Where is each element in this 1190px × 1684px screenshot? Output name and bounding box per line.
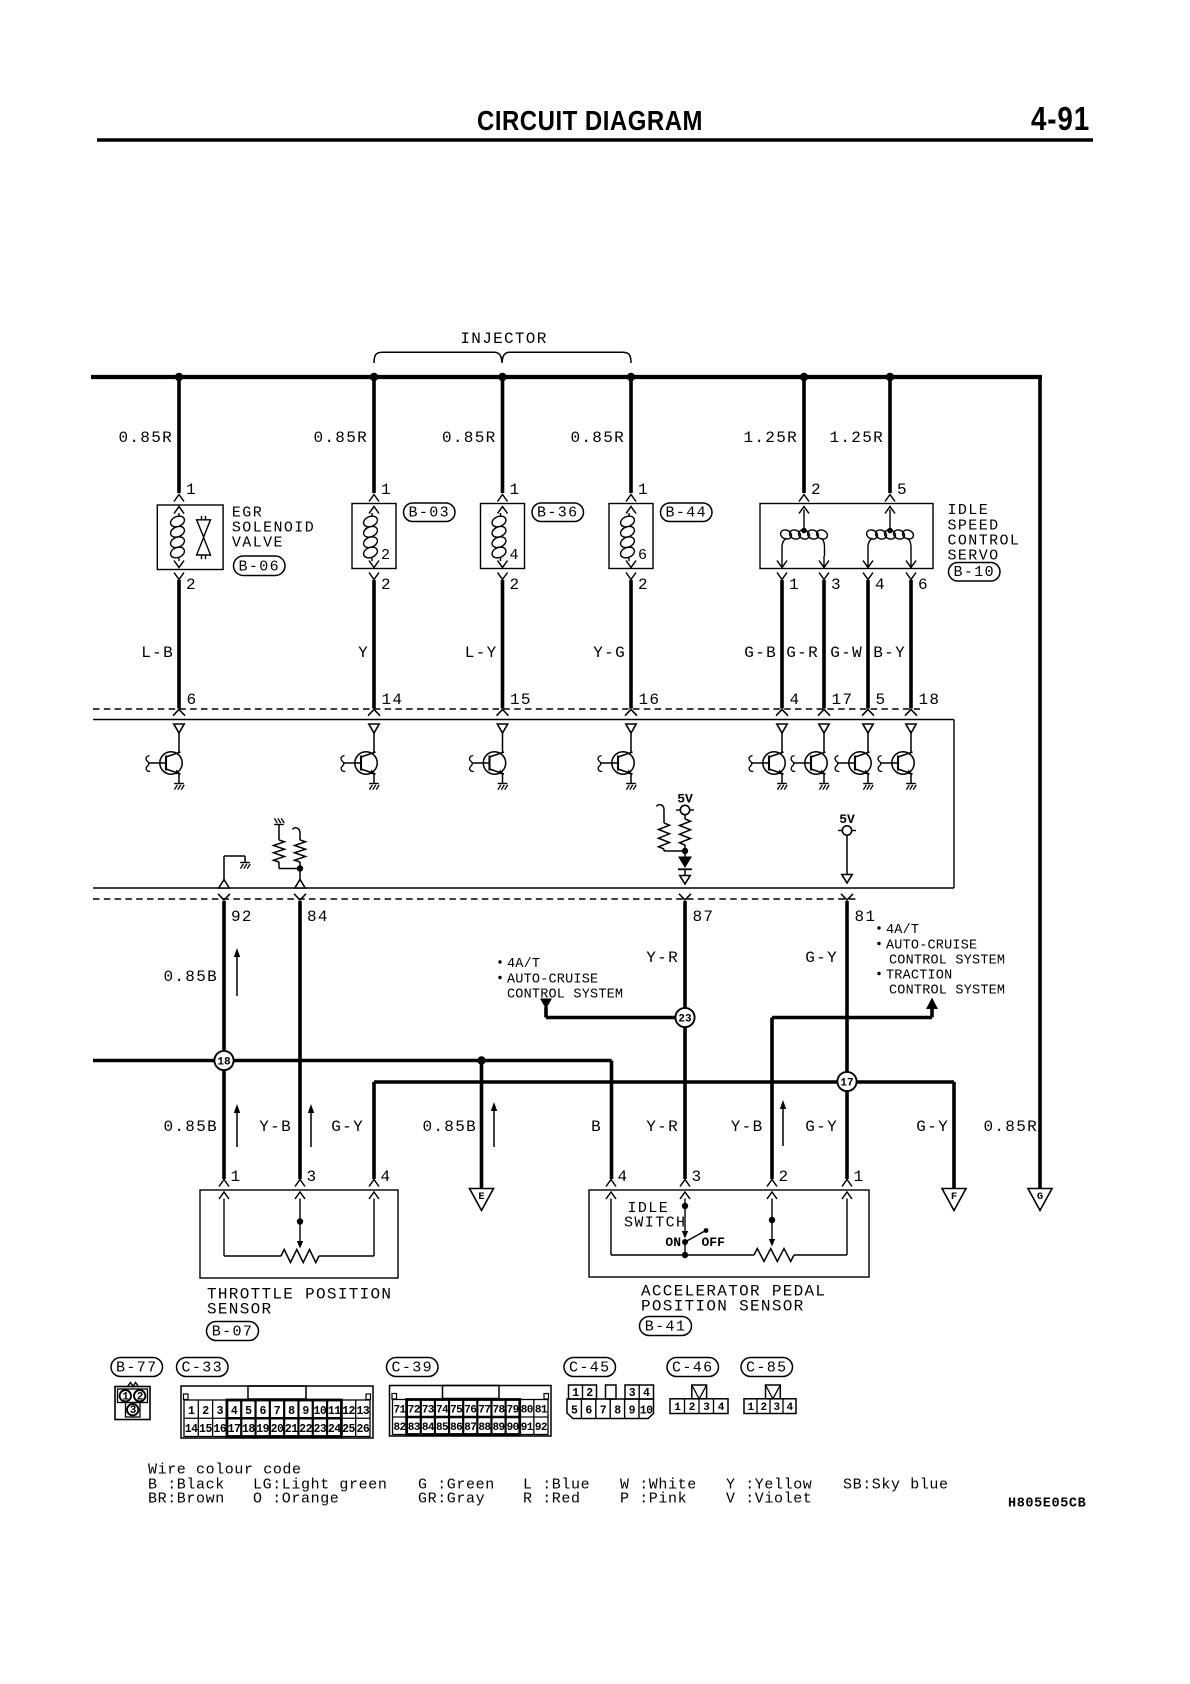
ECU pin 15: [497, 691, 532, 716]
pin 1 label above box at x=179: [186, 481, 197, 499]
svg-text:B-44: B-44: [665, 505, 707, 522]
svg-text:B-77: B-77: [116, 1360, 158, 1377]
svg-text:17: 17: [832, 691, 854, 709]
ECU internal: resistor R4 (left branch): [657, 805, 686, 851]
APS pin 4: [606, 1168, 628, 1199]
svg-text:C-45: C-45: [569, 1360, 611, 1377]
connector C-33 pin view: [181, 1386, 373, 1438]
svg-text:1: 1: [789, 576, 800, 594]
junction on bus x=804: [800, 373, 808, 381]
ECU internal: 5V supply node (81): [838, 812, 856, 874]
joint 23: [675, 1008, 694, 1027]
wire Y to ECU: [358, 580, 374, 709]
svg-text:15: 15: [510, 691, 532, 709]
svg-text:F: F: [951, 1191, 957, 1203]
connector ref B-07: [207, 1322, 259, 1341]
wire Y-B from pin 84: [298, 901, 302, 1179]
svg-text:AUTO-CRUISE: AUTO-CRUISE: [507, 973, 598, 988]
svg-text:18: 18: [217, 1057, 231, 1069]
svg-text:2: 2: [760, 1402, 766, 1414]
svg-text:0.85B: 0.85B: [163, 968, 218, 986]
drawing code: [1008, 1497, 1086, 1512]
svg-text:1: 1: [854, 1168, 865, 1186]
ISC leg pin 6: [906, 556, 929, 594]
svg-text:GR:Gray: GR:Gray: [418, 1491, 485, 1508]
svg-text:6: 6: [259, 1405, 266, 1418]
svg-text:2: 2: [510, 576, 521, 594]
svg-text:B-06: B-06: [238, 559, 280, 576]
bottom chevrons / pin 2 at x=631: [626, 561, 649, 595]
wire: bus right drop to G: [1038, 377, 1042, 1189]
svg-text:75: 75: [450, 1405, 463, 1417]
svg-text:4: 4: [790, 691, 801, 709]
svg-text:2: 2: [202, 1405, 209, 1418]
svg-text:26: 26: [356, 1423, 369, 1436]
wire G-W to ECU: [830, 580, 868, 709]
transistor Q5: [749, 724, 787, 790]
TPS pin 3: [295, 1168, 317, 1199]
svg-text:4: 4: [786, 1402, 793, 1414]
wire Y-R from pin 87: [683, 901, 687, 1179]
connector ref C-45: [564, 1358, 616, 1377]
svg-text:4: 4: [875, 576, 886, 594]
connector C-46 pin view: [670, 1385, 728, 1414]
svg-text:B-41: B-41: [645, 1319, 687, 1336]
svg-text:1: 1: [638, 481, 649, 499]
svg-text:12: 12: [342, 1405, 355, 1418]
svg-text:2: 2: [381, 547, 391, 564]
connector C-39 pin view: [390, 1386, 552, 1437]
pin 1 label above box at x=631: [638, 481, 649, 499]
svg-text:G-Y: G-Y: [331, 1118, 364, 1136]
svg-text:1: 1: [572, 1387, 579, 1400]
connector ref B-77: [111, 1358, 163, 1377]
connector B-77 pin view: [115, 1383, 150, 1420]
connector ref B-06: [234, 556, 286, 576]
svg-text:73: 73: [422, 1405, 435, 1417]
transistor Q1: [146, 724, 184, 790]
svg-text:CIRCUIT DIAGRAM: CIRCUIT DIAGRAM: [477, 105, 703, 136]
ECU internal: junction dot: [682, 848, 688, 854]
joint 18: [214, 1051, 233, 1070]
svg-text:G-Y: G-Y: [916, 1118, 949, 1136]
svg-text:CONTROL SYSTEM: CONTROL SYSTEM: [889, 984, 1005, 999]
svg-text:3: 3: [629, 1387, 636, 1400]
injector B-44 internal pin 6: [638, 547, 648, 564]
wire L-B to ECU: [141, 580, 179, 709]
svg-text:ON: ON: [665, 1235, 681, 1250]
pin 1 label above box at x=374: [381, 481, 392, 499]
svg-text:14: 14: [185, 1423, 198, 1436]
svg-text:1: 1: [674, 1402, 681, 1414]
connector chevrons top x=890: [885, 495, 895, 514]
EGR valve symbol: [197, 516, 211, 559]
injector B-36 box: [481, 504, 525, 569]
ECU pin 17: [818, 691, 853, 716]
svg-text:Y-R: Y-R: [646, 1118, 679, 1136]
transistor Q8: [878, 724, 916, 790]
svg-text:L-B: L-B: [141, 644, 174, 662]
svg-text:89: 89: [493, 1422, 505, 1434]
svg-text:CONTROL SYSTEM: CONTROL SYSTEM: [889, 954, 1005, 969]
header rule: [97, 138, 1093, 142]
joint wire (y=1082) G-Y: [374, 1082, 954, 1189]
ECU connector boundary top (dashed): [93, 708, 920, 710]
APS pin 3: [680, 1168, 702, 1199]
note: 4A/T auto-cruise (left): [498, 957, 623, 1003]
joint wire (y=1060) from left margin: [93, 1061, 612, 1180]
svg-text:4: 4: [618, 1168, 629, 1186]
bottom chevrons / pin 2 at x=374: [369, 561, 392, 595]
ECU internal: output chevron to 87: [680, 876, 690, 885]
ECU internal: pin 84 junction: [279, 865, 305, 888]
svg-text:25: 25: [342, 1423, 355, 1436]
throttle position sensor B-07 box: [200, 1190, 398, 1278]
svg-text:G-Y: G-Y: [805, 1118, 838, 1136]
junction on bus x=502.5: [498, 373, 506, 381]
svg-text:90: 90: [507, 1422, 519, 1434]
svg-text:86: 86: [450, 1422, 462, 1434]
wire colour code legend: [148, 1462, 949, 1508]
svg-text:16: 16: [213, 1423, 226, 1436]
connector chevrons top x=502.5: [498, 495, 508, 514]
svg-text:5V: 5V: [677, 792, 693, 807]
svg-text:R :Red: R :Red: [523, 1491, 581, 1508]
ECU pin 18: [905, 691, 940, 716]
ground point F: [942, 1189, 966, 1211]
ECU internal: resistor R1 (to ground): [274, 818, 285, 868]
connector chevrons top x=374: [369, 495, 379, 514]
svg-text:10: 10: [640, 1405, 653, 1418]
svg-text:2: 2: [137, 1391, 143, 1403]
svg-text:C-85: C-85: [746, 1360, 788, 1377]
svg-text:1: 1: [510, 481, 521, 499]
wire from APS pin 2 to other systems (arrow up): [772, 998, 938, 1180]
svg-text:B-07: B-07: [212, 1324, 254, 1341]
svg-text:3: 3: [703, 1402, 710, 1414]
lower wire labels: [163, 1118, 1038, 1136]
connector chevrons top x=179: [174, 495, 184, 514]
svg-text:87: 87: [464, 1422, 476, 1434]
svg-text:B: B: [591, 1118, 602, 1136]
injector B-03 internal pin 2: [381, 547, 391, 564]
svg-text:2: 2: [779, 1168, 790, 1186]
svg-text:4: 4: [643, 1387, 650, 1400]
wire: battery feed bus: [91, 375, 1042, 379]
junction on bus x=374: [370, 373, 378, 381]
svg-text:2: 2: [638, 576, 649, 594]
ISC labels: [948, 502, 1021, 565]
svg-text:92: 92: [231, 908, 253, 926]
pin 1 label above box at x=502.5: [510, 481, 521, 499]
injector B-03 box: [352, 504, 396, 569]
svg-text:0.85B: 0.85B: [422, 1118, 477, 1136]
svg-text:Y-B: Y-B: [731, 1118, 764, 1136]
svg-text:POSITION SENSOR: POSITION SENSOR: [641, 1298, 805, 1316]
ECU internal: diode D1: [678, 851, 692, 875]
transistor Q3: [470, 724, 508, 790]
svg-text:1: 1: [186, 481, 197, 499]
TPS pin 1: [219, 1168, 241, 1199]
svg-text:E: E: [478, 1191, 484, 1203]
svg-text:80: 80: [521, 1405, 533, 1417]
note: 4A/T auto-cruise traction (right): [877, 923, 1005, 999]
feed arrow into joint 23: [540, 999, 685, 1018]
svg-text:C-39: C-39: [391, 1360, 433, 1377]
APS idle switch: [682, 1199, 709, 1259]
svg-text:0.85R: 0.85R: [118, 429, 173, 447]
junction on bus x=890: [886, 373, 894, 381]
pin 2 label above box at x=804: [811, 481, 822, 499]
svg-text:TRACTION: TRACTION: [886, 969, 952, 984]
svg-text:2: 2: [381, 576, 392, 594]
svg-text:G-Y: G-Y: [805, 949, 838, 967]
brace over injectors: [374, 352, 631, 363]
wire B-Y to ECU: [873, 580, 911, 709]
connector ref B-03: [404, 503, 456, 522]
svg-text:V :Violet: V :Violet: [726, 1491, 812, 1508]
ISC leg pin 3: [819, 556, 842, 594]
svg-text:0.85R: 0.85R: [983, 1118, 1038, 1136]
ECU pin 84: [294, 894, 329, 926]
label 0.85B upper + arrow: [163, 948, 240, 996]
connector ref B-10: [949, 563, 1001, 582]
svg-text:88: 88: [478, 1422, 491, 1434]
ECU pin 92: [218, 894, 253, 926]
svg-text:5: 5: [876, 691, 887, 709]
ECU pin 6: [173, 691, 197, 716]
svg-text:AUTO-CRUISE: AUTO-CRUISE: [886, 939, 977, 954]
svg-text:14: 14: [382, 691, 404, 709]
svg-text:3: 3: [307, 1168, 318, 1186]
svg-text:L-Y: L-Y: [465, 644, 498, 662]
svg-text:2: 2: [689, 1402, 695, 1414]
lower up-arrows: [234, 1100, 786, 1147]
svg-text:G-B: G-B: [744, 644, 777, 662]
svg-text:SENSOR: SENSOR: [207, 1301, 272, 1319]
svg-text:22: 22: [299, 1423, 312, 1436]
svg-text:23: 23: [314, 1423, 327, 1436]
svg-text:78: 78: [493, 1405, 506, 1417]
ECU pin 5: [862, 691, 886, 716]
svg-text:G-W: G-W: [830, 644, 863, 662]
svg-text:7: 7: [274, 1405, 281, 1418]
accelerator pedal position sensor B-41 box: [589, 1190, 869, 1277]
svg-text:4-91: 4-91: [1031, 100, 1090, 137]
engine ECU box: [93, 720, 954, 889]
svg-text:B-10: B-10: [953, 564, 995, 581]
EGR label text: [232, 505, 315, 552]
svg-text:13: 13: [356, 1405, 369, 1418]
svg-text:2: 2: [186, 576, 197, 594]
APS pin 1: [842, 1168, 864, 1199]
svg-text:79: 79: [507, 1405, 519, 1417]
svg-text:3: 3: [831, 576, 842, 594]
svg-text:0.85R: 0.85R: [570, 429, 625, 447]
wire G-B to ECU: [744, 580, 782, 709]
svg-text:1: 1: [381, 481, 392, 499]
svg-text:C-33: C-33: [181, 1360, 223, 1377]
wire 0.85R from bus at x=374: [313, 377, 374, 493]
svg-text:76: 76: [464, 1405, 476, 1417]
svg-text:P :Pink: P :Pink: [620, 1491, 687, 1508]
connector ref C-33: [177, 1358, 229, 1377]
label Y-R upper: [646, 949, 679, 967]
svg-text:10: 10: [314, 1405, 327, 1418]
wire 1.25R from bus at x=890: [829, 377, 890, 493]
injector B-36 internal pin 4: [510, 547, 520, 564]
svg-text:IDLE: IDLE: [948, 502, 990, 519]
connector C-45 pin view: [567, 1385, 654, 1419]
TPS internal wiring + potentiometer: [224, 1199, 374, 1263]
svg-text:11: 11: [328, 1405, 341, 1418]
svg-text:INJECTOR: INJECTOR: [460, 330, 547, 348]
svg-text:84: 84: [422, 1422, 435, 1434]
svg-text:87: 87: [693, 908, 715, 926]
ECU pin 14: [368, 691, 403, 716]
svg-text:VALVE: VALVE: [232, 535, 284, 552]
svg-text:4: 4: [510, 547, 520, 564]
svg-text:0.85B: 0.85B: [163, 1118, 218, 1136]
ECU pin 87: [679, 894, 714, 926]
svg-text:1: 1: [188, 1405, 195, 1418]
svg-text:5: 5: [897, 481, 908, 499]
injector B-44 coil: [619, 513, 636, 561]
svg-text:6: 6: [187, 691, 198, 709]
svg-text:6: 6: [638, 547, 648, 564]
connector chevrons top x=804: [799, 495, 809, 514]
ISC coil 1: [779, 510, 829, 557]
svg-text:B-03: B-03: [408, 505, 450, 522]
junction on bus x=631: [627, 373, 635, 381]
svg-text:4: 4: [381, 1168, 392, 1186]
svg-text:2: 2: [811, 481, 822, 499]
junction on bus x=179: [175, 373, 183, 381]
wire 0.85R from bus at x=179: [118, 377, 179, 493]
svg-text:92: 92: [535, 1422, 547, 1434]
svg-text:85: 85: [436, 1422, 449, 1434]
svg-text:18: 18: [242, 1423, 255, 1436]
transistor Q4: [598, 724, 636, 790]
svg-text:Y: Y: [358, 644, 369, 662]
bottom chevrons / pin 2 at x=179: [174, 561, 197, 595]
svg-text:H805E05CB: H805E05CB: [1008, 1497, 1086, 1512]
connector chevrons top x=631: [626, 495, 636, 514]
page number 4-91: [1031, 100, 1090, 137]
svg-text:6: 6: [918, 576, 929, 594]
ECU pin 81: [841, 894, 876, 926]
connector C-85 pin view: [744, 1385, 796, 1414]
ECU internal: resistor R2 (pull-up hook): [293, 828, 306, 869]
injector B-44 box: [609, 504, 653, 569]
svg-text:24: 24: [328, 1423, 341, 1436]
svg-text:0.85R: 0.85R: [313, 429, 368, 447]
connector ref C-39: [387, 1358, 439, 1377]
svg-text:1.25R: 1.25R: [829, 429, 884, 447]
svg-text:Y-G: Y-G: [593, 644, 626, 662]
wire 1.25R from bus at x=804: [743, 377, 804, 493]
svg-text:0.85R: 0.85R: [442, 429, 497, 447]
svg-text:18: 18: [919, 691, 941, 709]
svg-text:G: G: [1037, 1191, 1043, 1203]
ISC coil 2: [865, 510, 915, 557]
svg-text:OFF: OFF: [702, 1235, 726, 1250]
TPS pin 4: [369, 1168, 391, 1199]
label G-Y upper: [805, 949, 838, 967]
connector ref B-41: [640, 1317, 692, 1336]
svg-text:9: 9: [302, 1405, 309, 1418]
wire G-Y from pin 81: [845, 901, 849, 1179]
wire L-Y to ECU: [465, 580, 503, 709]
INJECTOR label: [460, 330, 547, 348]
ECU internal: resistor R3: [680, 819, 691, 851]
svg-text:6: 6: [585, 1405, 592, 1418]
wire Y-G to ECU: [593, 580, 631, 709]
svg-text:17: 17: [840, 1078, 853, 1090]
svg-text:19: 19: [256, 1423, 269, 1436]
svg-text:15: 15: [199, 1423, 212, 1436]
svg-text:74: 74: [436, 1405, 449, 1417]
svg-text:20: 20: [271, 1423, 284, 1436]
svg-text:8: 8: [288, 1405, 295, 1418]
svg-text:2: 2: [586, 1387, 593, 1400]
svg-text:3: 3: [130, 1405, 137, 1417]
svg-text:4: 4: [718, 1402, 725, 1414]
svg-text:1: 1: [122, 1391, 129, 1403]
ECU internal: 5V supply node (87): [676, 792, 694, 820]
svg-text:Y-R: Y-R: [646, 949, 679, 967]
svg-text:1.25R: 1.25R: [743, 429, 798, 447]
svg-text:CONTROL SYSTEM: CONTROL SYSTEM: [507, 988, 623, 1003]
svg-text:72: 72: [408, 1405, 420, 1417]
ECU connector boundary bottom (dashed): [93, 898, 858, 900]
connector ref C-46: [667, 1358, 719, 1377]
wire 0.85B from pin 92: [222, 901, 226, 1179]
svg-text:83: 83: [408, 1422, 421, 1434]
svg-text:9: 9: [629, 1405, 636, 1418]
ECU pin 4: [776, 691, 800, 716]
ground point E: [470, 1189, 494, 1211]
svg-text:91: 91: [521, 1422, 534, 1434]
svg-text:21: 21: [285, 1423, 298, 1436]
svg-text:B-Y: B-Y: [873, 644, 906, 662]
svg-text:3: 3: [217, 1405, 224, 1418]
APS label: [641, 1283, 826, 1316]
svg-text:23: 23: [678, 1014, 692, 1026]
IDLE SWITCH text: [624, 1200, 686, 1232]
ECU internal: pin 92 network: [219, 856, 250, 888]
svg-text:1: 1: [747, 1402, 754, 1414]
wire G-R to ECU: [786, 580, 824, 709]
wire 0.85R from bus at x=631: [570, 377, 631, 493]
svg-text:81: 81: [535, 1405, 548, 1417]
svg-text:17: 17: [228, 1423, 241, 1436]
svg-text:SB:Sky blue: SB:Sky blue: [843, 1477, 949, 1494]
svg-text:BR:Brown: BR:Brown: [148, 1491, 225, 1508]
ground point G: [1028, 1189, 1052, 1211]
svg-text:5: 5: [571, 1405, 578, 1418]
TPS label: [207, 1286, 392, 1319]
svg-text:84: 84: [307, 908, 329, 926]
wire 0.85R from bus at x=502.5: [442, 377, 503, 493]
APS potentiometer: [611, 1199, 847, 1262]
pin 5 label above box at x=890: [897, 481, 908, 499]
svg-text:3: 3: [773, 1402, 780, 1414]
page header title: [477, 105, 703, 136]
connector ref C-85: [741, 1358, 793, 1377]
injector B-03 coil: [362, 513, 379, 561]
ISC leg pin 4: [863, 556, 886, 594]
